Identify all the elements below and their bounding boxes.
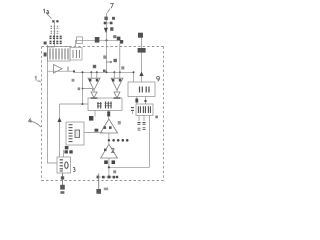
stack 1 triangle down	[88, 78, 100, 90]
junction dot	[73, 70, 75, 72]
dashed enclosure border	[42, 47, 164, 181]
label 7 and leader	[110, 3, 113, 8]
wire from comp6 down to stack2 pin	[119, 44, 121, 73]
top wire y40	[76, 39, 123, 41]
box5 output wire to amp1	[85, 132, 104, 134]
component above border	[138, 33, 143, 38]
7a tick and label	[104, 22, 112, 24]
box8 bottom pin left + 8a label	[94, 111, 96, 117]
small labels near wire y62 arrow	[107, 61, 113, 63]
top-right wire crossing border	[141, 36, 143, 82]
second block outline	[70, 48, 82, 61]
junction at x106 y40	[105, 39, 107, 41]
stack 2: pins	[114, 72, 120, 78]
box8 input wire	[60, 103, 89, 105]
component on y40 right (6)	[117, 37, 123, 44]
stack 1: pins	[91, 72, 97, 78]
wire to right riser	[109, 166, 150, 168]
2a labels	[104, 160, 115, 164]
5a label below box5	[65, 150, 73, 153]
box 5	[66, 122, 84, 145]
cap stack terminal dots	[52, 20, 58, 22]
battery pin tick	[67, 67, 69, 72]
joint cap stack to rail	[48, 46, 55, 48]
label 4 with leader outside border	[29, 118, 32, 123]
junction dots on wire y72	[90, 71, 92, 73]
amp2 below vertical	[108, 158, 110, 177]
diode D1 bar	[91, 97, 98, 99]
capacitor C row2	[51, 31, 61, 33]
vertical x75 upper	[75, 40, 77, 46]
box9 bottom pins	[137, 97, 146, 105]
small marks near rail top	[44, 42, 47, 57]
box3 top pins	[63, 150, 65, 157]
right riser from pins box	[149, 116, 151, 168]
label 1a top-left with leader	[43, 9, 49, 13]
capacitor stack vertical wire	[54, 22, 56, 47]
ground row dots	[97, 176, 117, 178]
stack1 tap wire	[83, 89, 93, 92]
label near U3 corner	[155, 116, 158, 119]
8b small label	[95, 129, 99, 132]
capacitor C row3 dark	[50, 36, 63, 38]
capacitor C row4 dark	[50, 41, 63, 43]
amp1 triangle up	[100, 119, 117, 133]
box3 bottom terminal	[62, 173, 64, 185]
top-center vertical wire	[106, 13, 108, 72]
box 8	[88, 98, 122, 111]
small label left of pins box	[131, 108, 134, 114]
label 2b	[113, 170, 116, 173]
stack 2 diode	[114, 92, 120, 98]
pins box bottom small components	[139, 116, 144, 122]
label 9a	[121, 66, 124, 69]
amp1 to junction vertical	[108, 133, 110, 144]
capacitor C row1	[51, 26, 61, 28]
vertical x82 from wire to box8 input line	[82, 72, 84, 103]
short pin from wire y72 to box9	[133, 72, 135, 82]
component on y40 left	[95, 37, 100, 43]
junction arrow mid	[104, 28, 108, 33]
dotted row right of junction	[112, 139, 128, 142]
small amp triangle left	[54, 65, 63, 74]
pins box	[136, 104, 153, 116]
left rail wire	[48, 45, 58, 163]
wire y71 from rail to stacks	[48, 71, 134, 72]
label 1 left of border	[35, 76, 41, 81]
arrow on wire	[139, 72, 143, 77]
diode D2 bar	[114, 97, 121, 99]
box 8 inner glyphs	[98, 102, 111, 109]
component below border	[138, 48, 146, 53]
terminal crossing border bottom center	[98, 174, 100, 190]
battery hatched block	[48, 47, 71, 62]
label near bottom terminal	[104, 188, 108, 191]
box 9	[128, 82, 155, 97]
vertical x59 with up arrow	[59, 104, 61, 157]
amp2 triangle up	[101, 144, 118, 158]
stack 1 diode	[91, 92, 97, 98]
box 3	[57, 157, 71, 173]
box8 to amp1 pin with dark mark	[108, 111, 110, 120]
stack 2 triangle down	[111, 78, 123, 90]
